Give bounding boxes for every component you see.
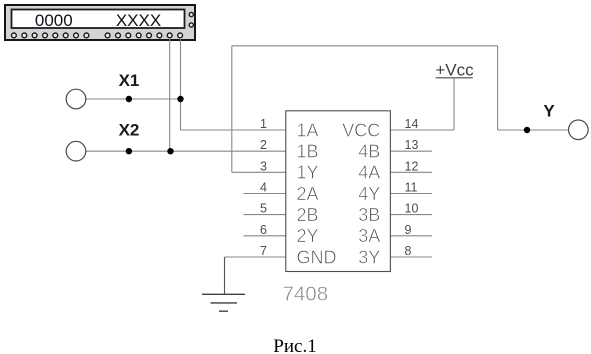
wire: pin 10 stub — [390, 214, 432, 216]
svg-text:2: 2 — [260, 138, 267, 152]
wire: pin 8 stub — [390, 256, 432, 258]
svg-text:3: 3 — [260, 159, 267, 173]
svg-text:10: 10 — [405, 202, 419, 216]
wire: top feedback horizontal — [232, 45, 498, 47]
svg-text:5: 5 — [260, 202, 267, 216]
svg-text:VCC: VCC — [342, 120, 380, 140]
ground — [202, 294, 245, 311]
svg-text:+Vcc: +Vcc — [435, 60, 474, 79]
word generator instrument — [5, 5, 195, 40]
svg-text:9: 9 — [405, 223, 412, 237]
wire: terminal 16 down to X1 node — [180, 38, 182, 99]
node dot on X1 wire — [126, 96, 132, 102]
terminal X1 — [66, 89, 86, 109]
svg-text:4A: 4A — [358, 163, 380, 183]
wire: pin 1 (1A) — [181, 129, 287, 131]
wire: pin 14 to Vcc — [390, 129, 454, 131]
instrument bottom terminals row 2 — [105, 33, 182, 38]
wire: pin 5 stub — [244, 214, 287, 216]
wire: pin 11 stub — [390, 193, 432, 195]
wire: X1 node down to pin 1 — [180, 99, 182, 130]
svg-text:2Y: 2Y — [297, 226, 319, 246]
svg-text:2A: 2A — [297, 184, 319, 204]
svg-text:8: 8 — [405, 244, 412, 258]
wire: vertical from top wire to pin 3 — [231, 46, 233, 173]
node dot on X2 wire — [126, 148, 132, 154]
wire: X1 input horizontal — [86, 98, 181, 100]
svg-text:6: 6 — [260, 223, 267, 237]
wire: right vertical to Y — [497, 46, 499, 130]
svg-text:0000: 0000 — [35, 11, 73, 30]
svg-text:1Y: 1Y — [297, 163, 319, 183]
wire: X2 input to pin 2 (1B) — [86, 150, 286, 152]
node dot on Y wire — [524, 127, 530, 133]
svg-text:GND: GND — [297, 247, 337, 267]
op IC U1 7408 body — [286, 111, 391, 272]
svg-text:4Y: 4Y — [358, 184, 380, 204]
svg-text:12: 12 — [405, 159, 419, 173]
svg-text:11: 11 — [405, 181, 418, 195]
wire: ground drop — [224, 257, 226, 294]
wire: pin 13 stub — [390, 150, 432, 152]
wire: pin 12 stub — [390, 171, 432, 173]
svg-text:4B: 4B — [358, 142, 380, 162]
wire: pin 3 (1Y) — [232, 171, 286, 173]
wire: pin 4 stub — [244, 193, 287, 195]
wire: Vcc vertical — [453, 78, 455, 130]
svg-text:3A: 3A — [358, 226, 380, 246]
svg-text:3Y: 3Y — [358, 247, 380, 267]
svg-text:Рис.1: Рис.1 — [273, 336, 316, 354]
svg-text:4: 4 — [260, 181, 267, 195]
node X1 junction — [177, 96, 183, 102]
instrument side terminals — [189, 12, 193, 27]
node X2 junction — [167, 148, 173, 154]
wire: Y output horizontal — [498, 129, 569, 131]
wire: pin 6 stub — [244, 235, 287, 237]
svg-text:1B: 1B — [297, 142, 319, 162]
svg-text:X1: X1 — [119, 71, 140, 90]
svg-text:7408: 7408 — [283, 283, 329, 306]
svg-text:13: 13 — [405, 138, 419, 152]
svg-text:XXXX: XXXX — [116, 11, 161, 30]
instrument bottom terminals row 1 — [12, 33, 89, 38]
svg-text:3B: 3B — [358, 205, 380, 225]
svg-text:Y: Y — [543, 102, 555, 121]
terminal Y — [569, 120, 589, 140]
svg-text:X2: X2 — [119, 120, 140, 139]
svg-text:1A: 1A — [297, 120, 319, 140]
svg-text:1: 1 — [260, 117, 267, 131]
svg-text:2B: 2B — [297, 205, 319, 225]
terminal X2 — [66, 141, 86, 161]
svg-text:7: 7 — [260, 244, 267, 258]
power +Vcc — [435, 60, 474, 79]
wire: pin 7 (GND) — [225, 256, 287, 258]
wire: terminal 15 down to X2 node — [169, 38, 171, 151]
wire: pin 9 stub — [390, 235, 432, 237]
svg-text:14: 14 — [405, 117, 419, 131]
